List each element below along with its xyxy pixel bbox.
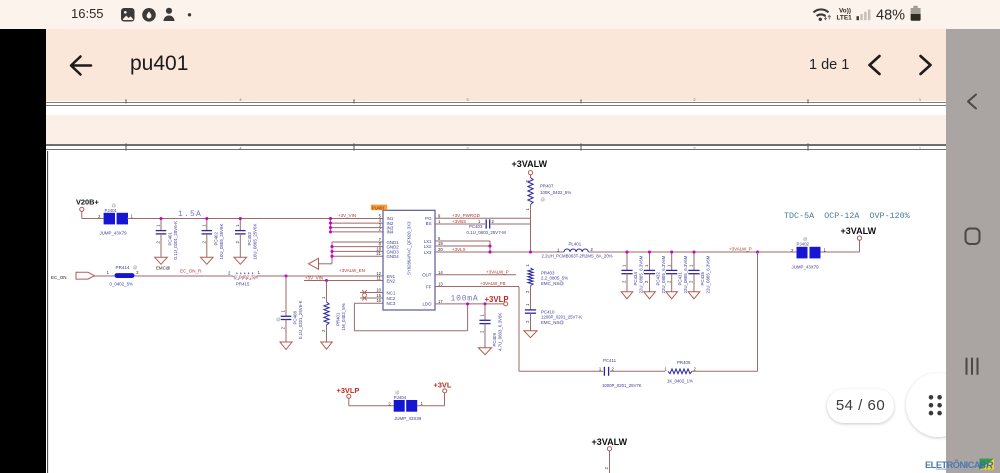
IC left pin names bbox=[387, 216, 400, 306]
wire EN2 +3V_VIN bbox=[304, 275, 383, 280]
wire EC_ON_R bbox=[135, 269, 234, 276]
jumper PJ402 bbox=[791, 237, 826, 270]
capacitor PC402 bbox=[202, 219, 224, 260]
junction at PC434 bbox=[625, 250, 628, 253]
ground for PC401 bbox=[155, 257, 171, 270]
wire FF feedback bbox=[435, 281, 603, 371]
power symbol +3VLP at LDO bbox=[485, 295, 509, 306]
wire BS with label +3VBS bbox=[435, 219, 485, 224]
ground for PC435 bbox=[688, 292, 700, 299]
junction at PC435 bbox=[692, 250, 695, 253]
resistor PR407 bbox=[525, 178, 571, 253]
IC left pin numbers bbox=[376, 213, 381, 303]
capacitor PC432 bbox=[644, 252, 666, 294]
power symbol +3VL bbox=[434, 380, 452, 393]
capacitor PC452 bbox=[235, 219, 257, 260]
PU401 designator tag bbox=[371, 205, 387, 211]
resistor PR414 0 ohm bbox=[110, 265, 140, 287]
capacitor PC401 bbox=[156, 219, 178, 260]
junction on rail at PC401 bbox=[159, 217, 162, 220]
svg-text:BR: BR bbox=[979, 461, 994, 472]
net label +3V_VIN bbox=[338, 213, 356, 218]
inductor PL401 bbox=[542, 242, 613, 259]
android navigation bar bbox=[946, 29, 1000, 473]
pdf page gap band bbox=[46, 106, 946, 115]
capacitor PC411 bbox=[599, 358, 665, 388]
junction on rail at PC452 bbox=[239, 217, 242, 220]
note 100mA bbox=[451, 295, 479, 304]
GND pin wires and bus bbox=[319, 242, 384, 264]
power symbol +3VALW right bbox=[841, 226, 877, 240]
wires LX1 LX2 LX3 bbox=[435, 241, 564, 254]
grid dots button bbox=[906, 373, 970, 437]
junction on rail at PC402 bbox=[205, 217, 208, 220]
capacitor PC403 bbox=[467, 219, 531, 235]
op-amp regulator U PU401 box bbox=[383, 210, 435, 310]
toolbar title bbox=[130, 52, 188, 76]
status bar clock bbox=[71, 6, 104, 21]
IC right pin names bbox=[422, 216, 432, 307]
toolbar back arrow bbox=[0, 0, 1000, 110]
power symbol +3VLP bottom bbox=[337, 386, 360, 406]
ground for PC408 bbox=[280, 342, 292, 350]
wire to EN1 bbox=[257, 268, 384, 276]
capacitor PC431 bbox=[666, 252, 688, 294]
IN pin bus and wires bbox=[329, 217, 383, 234]
IC right pin numbers bbox=[438, 213, 443, 304]
wire PG to pull-up bbox=[435, 213, 531, 218]
no-connect X marks NC1 NC2 bbox=[360, 290, 383, 300]
power symbol V20B+ bbox=[76, 198, 99, 219]
net label 1.5A bbox=[178, 210, 202, 219]
junction at PR401 bbox=[325, 279, 328, 282]
ground for PC402 bbox=[201, 257, 214, 264]
capacitor PC435 bbox=[688, 252, 710, 294]
ground for PC432 bbox=[644, 292, 656, 299]
wire to PJ404 bbox=[349, 401, 394, 406]
power symbol +3VALW bottom bbox=[592, 437, 628, 473]
node EC_ON flag bbox=[51, 272, 95, 280]
ground for PR401 bbox=[321, 342, 332, 349]
resistor PR415 bbox=[228, 270, 260, 286]
left letterbox bar bbox=[0, 29, 46, 473]
junction node EC_ON_R bbox=[284, 274, 287, 277]
note TDC-5A OCP-12A OVP-120% bbox=[784, 212, 910, 221]
IC part number text bbox=[407, 221, 412, 275]
ground for PC434 bbox=[621, 292, 633, 299]
wire OUT +3VALW_P bbox=[435, 269, 516, 274]
app toolbar bbox=[46, 29, 946, 101]
junction at PC431 bbox=[670, 250, 673, 253]
ground arrow symbol bbox=[309, 258, 319, 269]
watermark ELETRONICA BR bbox=[925, 460, 980, 470]
capacitor PC434 bbox=[621, 252, 643, 294]
wire EC_ON bbox=[95, 270, 115, 276]
ground for PC452 bbox=[234, 257, 247, 264]
junction LX node bbox=[529, 250, 532, 253]
ground for PC410 bbox=[524, 331, 537, 338]
junction LDO loop bbox=[466, 302, 487, 305]
power symbol +3VALW top bbox=[512, 159, 548, 178]
wire NC3 loop to LDO node bbox=[354, 303, 467, 331]
capacitor PC408 bbox=[276, 276, 303, 342]
jumper PJ401 bbox=[98, 203, 133, 236]
resistor PR405 bbox=[664, 252, 757, 383]
ground for PC409 bbox=[478, 348, 491, 355]
ground for PC431 bbox=[666, 292, 678, 299]
junction feedback tap bbox=[756, 250, 759, 253]
wire PJ404 to +3VL bbox=[417, 393, 444, 406]
jumper PJ404 bbox=[394, 390, 424, 421]
junction at PC432 bbox=[648, 250, 651, 253]
wire +3V_VIN rail bbox=[82, 218, 383, 220]
status bar notification icons bbox=[0, 0, 1000, 29]
toolbar page indicator bbox=[809, 57, 849, 73]
page border lines bbox=[46, 102, 946, 103]
resistor PR401 bbox=[321, 281, 346, 343]
wire +3VALW_P rail bbox=[588, 247, 796, 252]
wire LDO output bbox=[435, 303, 504, 305]
wire PJ402 to +3VALW bbox=[821, 240, 860, 252]
page number pill 54 / 60 bbox=[827, 389, 894, 423]
status bar bbox=[0, 0, 1000, 29]
resistor PR403 snubber bbox=[525, 264, 568, 310]
capacitor PC410 bbox=[525, 303, 582, 331]
capacitor PC409 bbox=[479, 304, 502, 351]
